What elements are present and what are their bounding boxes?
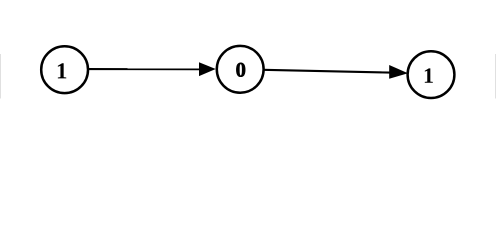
left frame tick — [0, 54, 1, 99]
arrowhead edge 1 — [199, 62, 216, 76]
node circle 1 (left state) — [41, 46, 88, 93]
arrowhead edge 2 — [389, 65, 408, 79]
label 1 (left state) — [58, 63, 66, 78]
node circle 1 (right state) — [408, 51, 455, 98]
wire edge 2 — [263, 70, 390, 73]
label 1 (right state) — [425, 68, 433, 82]
wire edge 1 — [87, 68, 200, 70]
label 0 (middle state) — [236, 63, 245, 77]
right frame tick — [495, 54, 496, 99]
node circle 0 (middle state) — [217, 46, 264, 93]
